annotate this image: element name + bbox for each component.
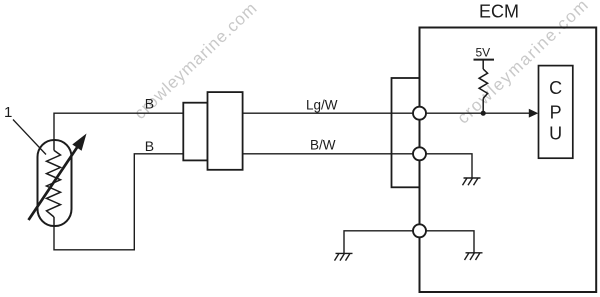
ECM connector housing [392,78,420,187]
ECM box [420,28,597,293]
svg-text:5V: 5V [476,46,491,60]
ECM pin 1 (Lg/W) [413,107,426,120]
watermark crowleymarine.com (right) [453,0,592,128]
wire B bottom (sensor to connector) [54,154,183,250]
wire circle3 to right ground [420,231,475,253]
svg-text:C: C [549,78,562,98]
wire pin1 to CPU [420,112,531,114]
wire pin2 to ground [420,154,473,178]
svg-text:Lg/W: Lg/W [306,97,338,112]
pull-up resistor [479,60,488,114]
watermark crowleymarine.com (left) [130,0,261,123]
label CPU [549,78,562,144]
ECM pin 3 (ground) [413,224,426,237]
leader line for label 1 [13,120,46,155]
connector housing left half [183,103,207,161]
ground (right of pin 3) [465,253,483,260]
CPU box [539,66,573,159]
svg-text:U: U [549,124,562,144]
wire circle3 to left ground [344,231,420,254]
svg-text:ECM: ECM [479,2,519,22]
5V supply bar [474,59,495,61]
ground (B/W pin 2) [463,178,481,185]
junction dot [481,111,486,116]
ground (left of pin 3) [335,253,353,260]
thermistor sensor 1 [29,134,87,227]
arrowhead into CPU [529,109,539,118]
svg-text:1: 1 [4,104,12,121]
svg-text:B: B [145,96,154,112]
wire B top (sensor to connector) [54,113,183,141]
wire B/W (connector to ECM pin) [243,153,420,155]
svg-text:B: B [145,138,154,154]
ECM pin 2 (B/W) [413,147,426,160]
svg-text:B/W: B/W [310,138,336,153]
svg-text:P: P [550,102,562,122]
connector housing right half [208,92,243,170]
wire Lg/W (connector to ECM pin) [243,112,420,114]
